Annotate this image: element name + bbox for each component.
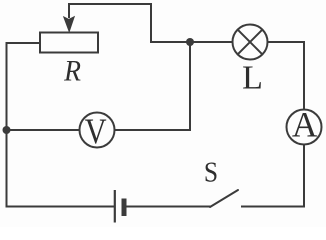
wire voltmeter branch vertical up to junction <box>189 42 191 130</box>
wire to junction node <box>151 41 190 43</box>
svg-text:R: R <box>63 55 81 88</box>
svg-text:S: S <box>204 156 218 188</box>
wire left to rheostat <box>7 42 41 44</box>
lamp L symbol (circle with X) <box>233 25 268 60</box>
wire right vertical upper (to ammeter) <box>303 42 305 110</box>
wire voltmeter right branch <box>115 129 191 131</box>
wire lamp to right corner <box>268 41 305 43</box>
rheostat R (slide resistor box) <box>40 33 98 53</box>
switch S blade <box>210 190 238 207</box>
wire battery to left corner <box>7 206 115 208</box>
wire bottom right (corner to switch contact) <box>242 206 304 208</box>
wire right vertical lower (ammeter to bottom) <box>303 145 305 207</box>
node junction dot (top, at 190,42) <box>186 38 194 46</box>
ammeter A symbol <box>287 110 322 145</box>
rheostat wiper arrow <box>64 4 74 32</box>
battery cell: short thick plate <box>122 199 127 217</box>
wire voltmeter left branch <box>7 129 80 131</box>
node junction dot (left, at 6.5,130) <box>3 126 11 134</box>
svg-text:V: V <box>85 112 107 152</box>
wire top-right vertical drop <box>150 4 152 42</box>
wire junction to lamp <box>190 41 233 43</box>
wire top horizontal (arrow top to right corner) <box>69 3 151 5</box>
svg-text:A: A <box>292 104 318 144</box>
battery cell: long thin plate <box>114 190 116 223</box>
voltmeter V symbol <box>80 113 115 148</box>
svg-text:L: L <box>242 59 263 96</box>
wire switch to battery <box>127 206 211 208</box>
wire left vertical <box>6 43 8 207</box>
